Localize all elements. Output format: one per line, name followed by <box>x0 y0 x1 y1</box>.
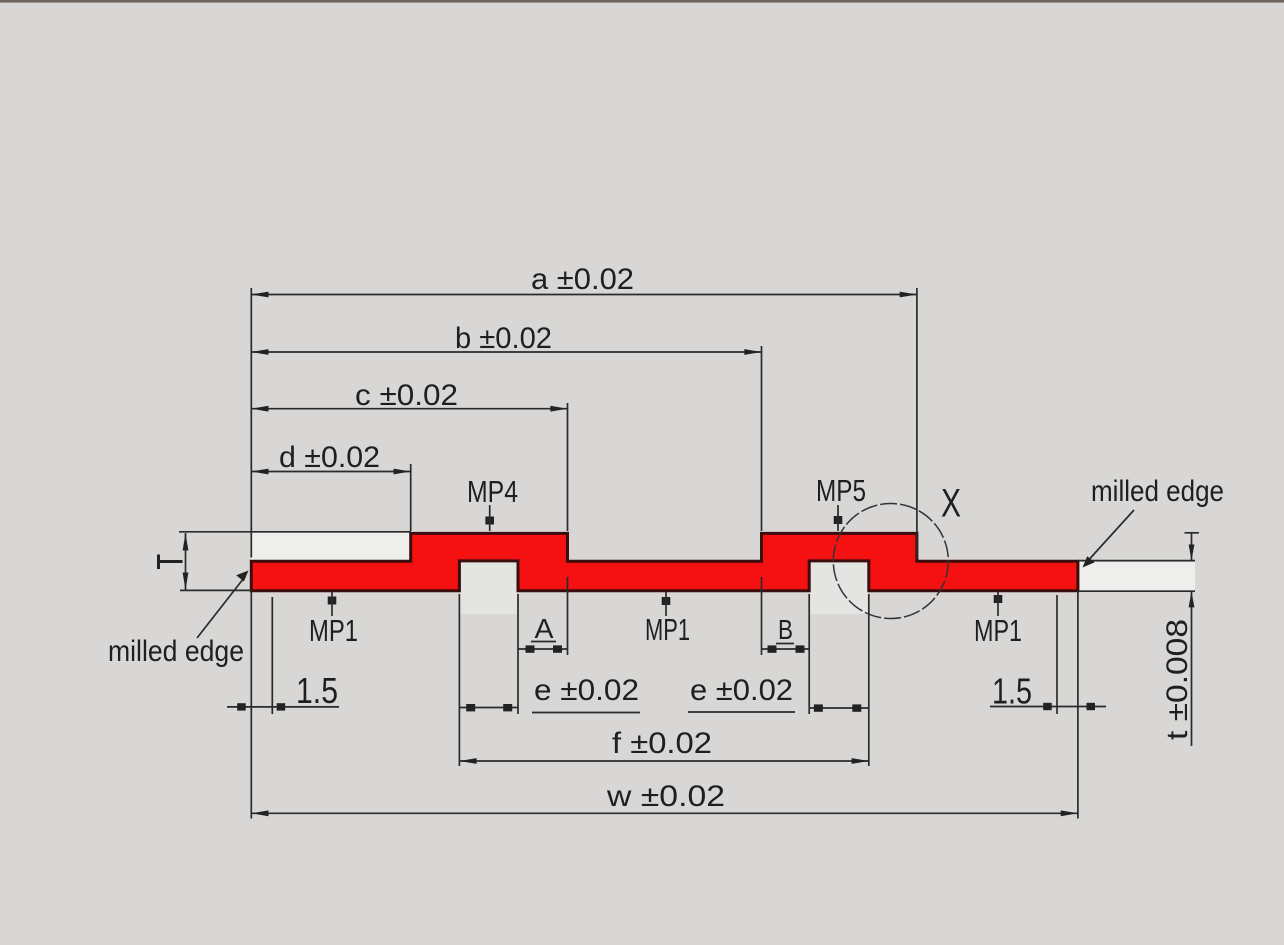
svg-text:MP1: MP1 <box>974 613 1022 648</box>
svg-text:f ±0.02: f ±0.02 <box>612 727 712 760</box>
svg-text:B: B <box>778 614 793 645</box>
svg-text:t ±0.008: t ±0.008 <box>1161 619 1194 740</box>
svg-text:1.5: 1.5 <box>992 671 1032 712</box>
svg-text:MP1: MP1 <box>309 613 358 648</box>
svg-text:milled edge: milled edge <box>1091 475 1224 508</box>
svg-text:e ±0.02: e ±0.02 <box>690 674 793 707</box>
svg-text:e ±0.02: e ±0.02 <box>534 674 639 707</box>
svg-text:1.5: 1.5 <box>296 670 338 711</box>
svg-text:c ±0.02: c ±0.02 <box>355 379 458 412</box>
svg-text:w ±0.02: w ±0.02 <box>606 780 725 813</box>
svg-text:A: A <box>535 613 554 644</box>
svg-text:b ±0.02: b ±0.02 <box>455 322 552 355</box>
svg-text:d ±0.02: d ±0.02 <box>279 441 380 474</box>
svg-text:MP1: MP1 <box>645 612 690 647</box>
svg-text:a ±0.02: a ±0.02 <box>531 263 634 296</box>
svg-text:MP5: MP5 <box>816 473 866 508</box>
svg-text:MP4: MP4 <box>467 474 518 509</box>
svg-text:milled edge: milled edge <box>108 635 244 668</box>
svg-text:X: X <box>941 482 961 526</box>
